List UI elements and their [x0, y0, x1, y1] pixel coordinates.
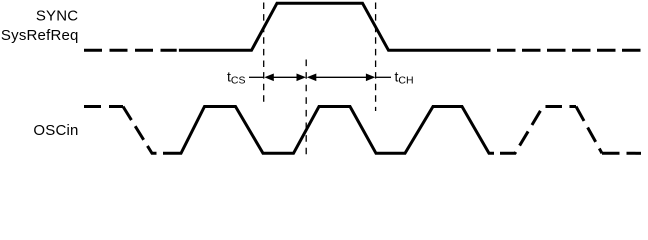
node cursor line 2 (OSCin edge reference): [305, 60, 307, 155]
arrowhead tCH left: [307, 74, 317, 82]
wire SYNC low dashed lead-in: [84, 49, 177, 52]
wire SYNC low dashed lead-out: [497, 49, 641, 52]
svg-text:SYNC: SYNC: [36, 8, 78, 25]
svg-text:SysRefReq: SysRefReq: [1, 27, 79, 44]
svg-text:tCH: tCH: [395, 68, 414, 86]
arrowhead tCS right: [297, 74, 307, 82]
arrowhead tCS left: [264, 74, 274, 82]
svg-text:tCS: tCS: [227, 68, 245, 86]
wire SYNC solid pulse (low, rise, high, fall, low): [179, 3, 491, 50]
wire OSCin dashed cycle fall: [576, 107, 602, 154]
node cursor line 1 (rising edge reference): [263, 3, 265, 102]
arrowhead tCH right: [366, 74, 376, 82]
svg-text:OSCin: OSCin: [33, 122, 78, 139]
wire tCS dimension shaft: [273, 76, 298, 78]
wire OSCin dashed low lead-out: [602, 152, 641, 155]
wire tCH leader: [376, 76, 391, 78]
node cursor line 3 (falling edge reference): [375, 3, 377, 112]
wire tCH dimension shaft: [316, 76, 368, 78]
wire tCS leader: [249, 76, 264, 78]
wire OSCin dashed lead-in high: [84, 105, 123, 108]
wire OSCin dashed cycle rise and high: [500, 107, 576, 154]
wire OSCin solid clock cycles: [163, 107, 494, 154]
wire OSCin dashed lead-in fall: [123, 107, 157, 154]
